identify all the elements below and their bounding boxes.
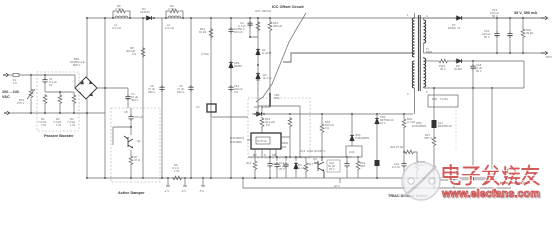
svg-text:800 V: 800 V: [73, 63, 80, 67]
capacitor C8: [130, 108, 132, 127]
svg-text:275 V: 275 V: [17, 101, 24, 105]
capacitor C15 out: [496, 18, 498, 53]
wire node drain: [258, 106, 300, 157]
wire bridge left: [74, 75, 76, 88]
wire fb top: [277, 157, 352, 161]
optocoupler U2: [207, 104, 216, 112]
resistor R27: [433, 128, 435, 136]
resistor R3: [59, 92, 61, 94]
svg-text:630 V: 630 V: [177, 90, 184, 94]
diode D8: [449, 60, 456, 62]
terminal L: [3, 73, 9, 76]
dashed box Active Damper: [111, 108, 160, 182]
box U4 TL431: [428, 95, 458, 107]
svg-text:S: S: [264, 153, 266, 157]
wire bridge out right: [97, 87, 128, 89]
test point stubs: [168, 178, 203, 186]
svg-text:2 W: 2 W: [41, 123, 46, 127]
svg-text:4.7 Ω: 4.7 Ω: [168, 7, 175, 11]
wire bottom bus: [87, 177, 493, 179]
svg-text:50 V: 50 V: [239, 27, 245, 31]
svg-text:1%: 1%: [325, 126, 330, 130]
wire top bus verticals: [87, 18, 231, 178]
watermark url text: [441, 181, 541, 201]
fuse F1: [13, 74, 19, 77]
bus junction dots: [86, 177, 88, 179]
wire input N: [9, 112, 105, 114]
resistor R16: [288, 117, 292, 128]
resistor R14: [209, 28, 213, 39]
terminal +: [541, 16, 548, 19]
resistor R22: [522, 18, 524, 28]
svg-text:1%: 1%: [132, 52, 137, 56]
wire transformer secondary bottom: [423, 87, 425, 89]
resistor R20: [403, 114, 405, 118]
node dots top rail left: [86, 17, 88, 19]
svg-text:1000 pF/250 V: 1000 pF/250 V: [307, 149, 325, 153]
svg-text:Passive Booster: Passive Booster: [44, 134, 74, 138]
capacitor C1: [44, 75, 46, 92]
svg-text:1 W: 1 W: [70, 123, 75, 127]
svg-text:1 W: 1 W: [56, 123, 61, 127]
zener D5: [229, 61, 233, 69]
svg-text:FB: FB: [272, 153, 276, 157]
svg-text:C8: C8: [124, 110, 128, 114]
svg-text:-0 V: -0 V: [181, 189, 186, 193]
svg-text:50 V: 50 V: [476, 69, 482, 73]
svg-text:2 A: 2 A: [13, 81, 17, 85]
terminal -: [541, 51, 548, 54]
svg-text:1: 1: [407, 13, 409, 17]
IC U1: [251, 133, 281, 149]
svg-text:Q3: Q3: [313, 157, 317, 161]
watermark glyph texture lines: [445, 171, 539, 181]
svg-text:RM8: RM8: [426, 50, 432, 54]
svg-text:RTN: RTN: [546, 55, 552, 59]
diode D11: [351, 114, 353, 134]
diode D7: [424, 17, 456, 19]
capacitor C10 below IC: [269, 157, 271, 178]
resistor R2: [43, 94, 47, 105]
svg-text:1%: 1%: [266, 123, 271, 127]
svg-text:R26: R26: [432, 97, 438, 101]
capacitor C16 out: [509, 18, 511, 53]
svg-text:(U3): (U3): [349, 150, 355, 154]
node (2)V stub: [339, 178, 341, 183]
resistor R5: [113, 11, 130, 18]
seal logo: [402, 162, 440, 200]
svg-text:ES1M, 7F: ES1M, 7F: [448, 26, 461, 30]
wire primary bottom to drain: [414, 90, 416, 114]
capacitor C18: [470, 64, 475, 71]
svg-text:(7.5Ω): (7.5Ω): [201, 52, 209, 56]
svg-text:1 W: 1 W: [174, 169, 179, 173]
resistor R19: [357, 157, 359, 160]
wire source rail y157: [248, 156, 352, 158]
wire drain bus y114: [252, 113, 413, 115]
svg-text:2.2 mH: 2.2 mH: [112, 26, 121, 30]
svg-text:630 V: 630 V: [148, 90, 155, 94]
wire input L: [8, 74, 75, 76]
box U3: [346, 146, 362, 157]
wire output return y53: [424, 52, 542, 54]
transistor Q2: [124, 136, 133, 148]
resistor R24 horizontal: [404, 150, 415, 154]
svg-text:25 V: 25 V: [329, 167, 335, 171]
capacitor C4: [127, 88, 129, 108]
svg-text:UF4007: UF4007: [140, 10, 150, 14]
bridge BR1: [75, 77, 97, 99]
svg-text:GL4M: GL4M: [454, 67, 462, 71]
inductor L2: [168, 16, 181, 18]
wire aux to loop: [424, 61, 525, 88]
svg-text:MM3Z: MM3Z: [234, 64, 242, 68]
capacitor C12: [228, 85, 233, 92]
wire to triac branch: [415, 152, 418, 160]
svg-text:39 V, 350 mA: 39 V, 350 mA: [514, 11, 537, 15]
svg-text:+: +: [548, 17, 550, 21]
svg-text:www.elecfans.com: www.elecfans.com: [499, 181, 530, 185]
svg-text:VAC: VAC: [2, 95, 10, 99]
capacitor C5: [188, 85, 193, 92]
diode D2: [256, 48, 260, 56]
svg-text:54R: 54R: [360, 164, 365, 168]
svg-text:1%: 1%: [234, 90, 239, 94]
svg-text:R24: R24: [390, 145, 396, 149]
svg-text:2.2 nF: 2.2 nF: [392, 165, 400, 169]
svg-text:4: 4: [426, 14, 428, 18]
svg-text:450 V: 450 V: [131, 98, 138, 102]
resistor R17: [305, 161, 307, 162]
svg-text:50 V: 50 V: [484, 35, 490, 39]
svg-text:100 – 240: 100 – 240: [2, 90, 19, 94]
resistor R4: [73, 92, 75, 94]
resistor R23: [438, 59, 449, 63]
resistor R15: [260, 117, 264, 128]
capacitor C14: [283, 162, 288, 169]
svg-text:390 kΩ: 390 kΩ: [262, 9, 271, 13]
svg-text:TL431: TL431: [440, 97, 448, 101]
svg-text:1N4148WS: 1N4148WS: [355, 136, 369, 140]
svg-text:LL4148: LL4148: [261, 105, 271, 109]
svg-text:U2: U2: [196, 105, 200, 109]
wire step to transformer: [283, 53, 415, 62]
capacitor C19: [346, 157, 348, 178]
dashed edge TRIAC detect: [455, 106, 457, 150]
resistor R18: [321, 114, 323, 123]
zener VR3: [376, 114, 378, 117]
watermark glyphs dian-zi-fa-shao-you: [444, 165, 539, 185]
wire top bus: [87, 17, 541, 19]
capacitor C9: [250, 18, 258, 48]
svg-text:4.7 Ω: 4.7 Ω: [115, 7, 122, 11]
resistor R7: [130, 150, 132, 155]
zener D6: [256, 72, 260, 80]
IC pins: [247, 137, 290, 157]
inductor L1: [115, 16, 128, 18]
svg-text:(2) V: (2) V: [334, 184, 340, 188]
svg-text:R12: R12: [246, 161, 252, 165]
svg-text:BZX55C10: BZX55C10: [438, 124, 452, 128]
capacitor C20 black: [376, 157, 378, 160]
svg-text:I​CC Offset Circuit: I​CC Offset Circuit: [272, 5, 304, 9]
label box cap: [327, 160, 340, 172]
svg-text:LNK4680: LNK4680: [230, 140, 242, 144]
dashed box ICC offset: [248, 98, 310, 158]
svg-text:-2 V: -2 V: [164, 189, 169, 193]
svg-text:Active Damper: Active Damper: [118, 191, 145, 195]
wire return rail: [243, 178, 511, 188]
dashed box Passive Booster: [37, 72, 79, 131]
resistor R10: [268, 21, 272, 32]
wire aux rail y61: [424, 60, 439, 62]
diode D3: [294, 162, 298, 170]
svg-text:36 V: 36 V: [440, 67, 446, 71]
diode D13: [433, 88, 435, 120]
svg-text:www.elecfans.com: www.elecfans.com: [441, 188, 540, 200]
svg-text:-5 V: -5 V: [199, 189, 204, 193]
capacitor C6: [159, 85, 164, 92]
svg-text:47 Ω: 47 Ω: [134, 158, 140, 162]
diode D4: [145, 16, 153, 20]
svg-text:27 kΩ: 27 kΩ: [396, 145, 403, 149]
svg-text:91 kΩ: 91 kΩ: [199, 30, 206, 34]
svg-text:25 V: 25 V: [279, 167, 285, 171]
transformer T1: [412, 13, 425, 91]
svg-text:5: 5: [426, 90, 428, 94]
capacitor C21: [403, 152, 405, 188]
resistor R9 in bus: [172, 176, 183, 180]
svg-text:OnTime: OnTime: [257, 139, 267, 143]
wire aux feedback verticals: [473, 88, 492, 180]
varistor RV1: [30, 75, 32, 113]
resistor R11: [256, 21, 260, 32]
capacitor C15: [228, 27, 233, 34]
resistor R8: [141, 47, 145, 58]
svg-text:39 kΩ: 39 kΩ: [526, 31, 533, 35]
svg-text:3: 3: [407, 92, 409, 96]
svg-text:X2: X2: [49, 83, 53, 87]
wire damper: [113, 127, 131, 145]
transistor Q3: [314, 157, 324, 178]
capacitor C??: [274, 162, 279, 169]
svg-text:1N4148WS: 1N4148WS: [412, 124, 426, 128]
svg-text:470 pF: 470 pF: [134, 115, 143, 119]
resistor R25: [415, 160, 419, 171]
svg-text:C13: C13: [300, 149, 306, 153]
svg-text:10 V: 10 V: [380, 121, 386, 125]
wire booster mid: [45, 91, 74, 93]
terminal N: [4, 111, 10, 114]
svg-text:R17: R17: [308, 162, 314, 166]
wire fb bottom: [440, 179, 493, 181]
svg-text:AVS: AVS: [255, 9, 261, 13]
svg-text:BP: BP: [253, 153, 257, 157]
zener VR2: [269, 93, 271, 106]
svg-text:390 kΩ: 390 kΩ: [273, 24, 282, 28]
resistor R12 below IC: [254, 157, 256, 160]
watermark glyph white backing: [444, 165, 539, 185]
resistor R6: [166, 11, 183, 18]
svg-text:2.2 mH: 2.2 mH: [165, 26, 174, 30]
wire diagonal: [256, 13, 306, 102]
svg-text:Q2: Q2: [137, 139, 141, 143]
svg-text:D10: D10: [254, 105, 260, 109]
